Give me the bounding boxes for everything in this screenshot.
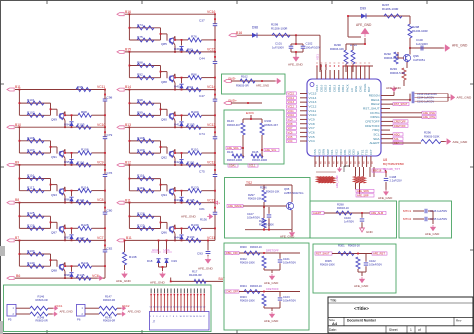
svg-text:VC4: VC4 <box>309 139 315 143</box>
svg-text:D41: D41 <box>174 122 180 126</box>
svg-text:RST_SHUT: RST_SHUT <box>394 102 408 106</box>
svg-text:AFE_GND: AFE_GND <box>264 281 279 285</box>
svg-text:2: 2 <box>153 316 154 318</box>
svg-text:R116: R116 <box>27 174 35 178</box>
svg-text:of: of <box>418 328 421 332</box>
svg-text:AFE_GND: AFE_GND <box>356 23 372 27</box>
svg-text:AFE_ALM: AFE_ALM <box>371 211 383 215</box>
svg-text:B7: B7 <box>15 236 19 240</box>
svg-text:VC13: VC13 <box>288 100 295 104</box>
svg-text:C82: C82 <box>107 246 113 250</box>
svg-text:R88: R88 <box>137 61 143 65</box>
svg-text:B14: B14 <box>125 85 131 89</box>
svg-text:AFE_GND: AFE_GND <box>453 140 469 144</box>
svg-text:AFE_GND: AFE_GND <box>116 279 132 283</box>
svg-text:VC13: VC13 <box>207 123 216 127</box>
svg-text:R1206-100R: R1206-100R <box>271 27 287 31</box>
svg-text:R0603-0R: R0603-0R <box>36 298 48 302</box>
svg-text:R0603-4K7: R0603-4K7 <box>227 123 241 127</box>
svg-text:VC14: VC14 <box>288 96 295 100</box>
svg-text:SCL: SCL <box>394 137 400 141</box>
svg-text:B8: B8 <box>15 198 19 202</box>
svg-text:R76: R76 <box>191 35 197 39</box>
svg-text:R0603-510K: R0603-510K <box>424 134 440 138</box>
svg-text:AFE_GND: AFE_GND <box>150 281 166 285</box>
svg-text:VC9: VC9 <box>97 161 104 165</box>
svg-text:R303: R303 <box>240 295 247 299</box>
svg-text:R109: R109 <box>137 148 145 152</box>
svg-text:R108: R108 <box>137 136 145 140</box>
svg-text:R0603-0R: R0603-0R <box>103 298 115 302</box>
svg-text:MTC2: MTC2 <box>403 217 412 221</box>
svg-text:B15: B15 <box>125 48 131 52</box>
svg-text:R0603-0R: R0603-0R <box>103 319 115 323</box>
svg-text:D95: D95 <box>64 160 70 164</box>
svg-text:100nF/50V: 100nF/50V <box>283 261 296 265</box>
svg-text:R162: R162 <box>241 75 248 79</box>
svg-text:SCL1: SCL1 <box>249 164 256 168</box>
svg-text:B9: B9 <box>15 161 19 165</box>
svg-text:AFE_GND: AFE_GND <box>378 196 393 200</box>
svg-text:R130: R130 <box>265 119 272 123</box>
svg-text:VC10: VC10 <box>288 113 295 117</box>
svg-text:E3V3: E3V3 <box>246 111 254 115</box>
svg-text:Sheet: Sheet <box>389 328 398 332</box>
svg-text:R0603-1K: R0603-1K <box>337 206 349 210</box>
svg-text:R0603-100R: R0603-100R <box>252 158 267 162</box>
svg-text:PD: PD <box>333 161 335 164</box>
svg-text:R0603-100K: R0603-100K <box>259 223 274 227</box>
svg-text:VC10: VC10 <box>97 123 106 127</box>
svg-text:R95: R95 <box>77 85 83 89</box>
svg-text:R128: R128 <box>137 211 145 215</box>
svg-text:AFE_CHG: AFE_CHG <box>423 115 435 119</box>
svg-text:1: 1 <box>410 328 412 332</box>
svg-text:DFETOFF: DFETOFF <box>266 249 279 253</box>
svg-text:R118: R118 <box>137 174 145 178</box>
svg-text:R0603-100K: R0603-100K <box>240 299 255 303</box>
svg-text:Q97: Q97 <box>51 231 57 235</box>
svg-text:VCC2: VCC2 <box>122 304 130 308</box>
svg-text:PD: PD <box>368 161 370 164</box>
svg-text:Q85: Q85 <box>161 42 167 46</box>
svg-text:AFE_GND: AFE_GND <box>354 284 369 288</box>
svg-text:R110: R110 <box>191 148 199 152</box>
svg-text:AFE_GND: AFE_GND <box>256 84 269 88</box>
svg-text:VD1: VD1 <box>316 54 320 60</box>
svg-text:R75: R75 <box>137 35 143 39</box>
svg-text:C98: C98 <box>107 96 113 100</box>
svg-text:AFE_GND: AFE_GND <box>386 86 402 90</box>
svg-text:GND: GND <box>366 230 374 234</box>
svg-text:C160: C160 <box>344 216 351 220</box>
svg-text:CFETOFF: CFETOFF <box>266 287 279 291</box>
svg-text:VC8: VC8 <box>288 122 294 126</box>
svg-text:100nF/50V: 100nF/50V <box>283 299 296 303</box>
svg-text:R0603-1K: R0603-1K <box>250 245 262 249</box>
svg-text:R143: R143 <box>227 119 234 123</box>
svg-text:R105: R105 <box>187 123 195 127</box>
svg-text:R145: R145 <box>252 150 259 154</box>
svg-text:R300: R300 <box>240 245 247 249</box>
svg-text:VC7: VC7 <box>97 236 104 240</box>
svg-text:Q93: Q93 <box>51 193 57 197</box>
svg-text:R113: R113 <box>77 160 85 164</box>
svg-text:R305: R305 <box>325 259 332 263</box>
svg-text:MTC1: MTC1 <box>403 209 412 213</box>
svg-text:R0603-10K: R0603-10K <box>248 197 262 201</box>
svg-text:DBG_OFF: DBG_OFF <box>226 251 238 255</box>
svg-text:R127: R127 <box>77 236 85 240</box>
svg-text:100nF/50V: 100nF/50V <box>369 263 382 267</box>
svg-text:BAT: BAT <box>367 86 371 92</box>
svg-text:AFE_GND: AFE_GND <box>457 96 473 100</box>
svg-text:GND+: GND+ <box>228 99 237 103</box>
svg-text:D44: D44 <box>174 236 180 240</box>
svg-text:HDQ: HDQ <box>394 133 400 137</box>
svg-text:CFETOFF: CFETOFF <box>394 120 406 124</box>
svg-text:C37: C37 <box>199 19 205 23</box>
svg-text:ALERT: ALERT <box>369 141 379 145</box>
svg-text:R0603-10K: R0603-10K <box>266 190 280 194</box>
svg-text:VC5: VC5 <box>288 135 294 139</box>
svg-text:UC1: UC1 <box>164 248 171 252</box>
svg-text:VC8: VC8 <box>97 198 104 202</box>
svg-text:RST_SHUT: RST_SHUT <box>316 252 330 256</box>
svg-text:R0603-100K: R0603-100K <box>320 263 335 267</box>
svg-text:R74: R74 <box>137 23 143 27</box>
svg-text:PD: PD <box>355 161 357 164</box>
svg-text:9: 9 <box>176 316 177 318</box>
svg-text:R296: R296 <box>260 186 267 190</box>
svg-text:VC7: VC7 <box>288 126 294 130</box>
svg-text:PD: PD <box>342 161 344 164</box>
svg-text:C81: C81 <box>199 207 205 211</box>
svg-text:VC9: VC9 <box>288 118 294 122</box>
svg-text:D42: D42 <box>174 160 180 164</box>
svg-text:1uF/100V: 1uF/100V <box>272 46 284 50</box>
svg-text:R140: R140 <box>27 261 35 265</box>
svg-text:R98: R98 <box>137 98 143 102</box>
svg-text:CHG_OFF: CHG_OFF <box>226 290 239 294</box>
svg-text:R108: R108 <box>81 148 89 152</box>
svg-text:AFE_GND: AFE_GND <box>452 44 468 48</box>
svg-text:C163: C163 <box>283 295 290 299</box>
svg-text:VC6: VC6 <box>288 130 294 134</box>
svg-text:VCC1: VCC1 <box>55 304 63 308</box>
svg-text:C76: C76 <box>107 171 113 175</box>
svg-text:PD: PD <box>338 161 340 164</box>
svg-text:PD: PD <box>329 161 331 164</box>
svg-text:R0603-4K7: R0603-4K7 <box>265 123 279 127</box>
svg-text:B6: B6 <box>16 274 20 278</box>
svg-text:R125: R125 <box>187 198 195 202</box>
svg-text:VC11: VC11 <box>97 85 105 89</box>
svg-text:Q98: Q98 <box>51 268 57 272</box>
svg-text:C47: C47 <box>199 94 205 98</box>
svg-text:AFE_GND: AFE_GND <box>60 309 73 313</box>
svg-text:D98: D98 <box>252 26 258 30</box>
svg-text:R136: R136 <box>200 218 207 222</box>
svg-text:AFE_GND: AFE_GND <box>280 235 295 239</box>
svg-text:VC6: VC6 <box>92 274 99 278</box>
svg-text:C44: C44 <box>199 56 205 60</box>
svg-text:D96: D96 <box>64 198 70 202</box>
svg-text:AFE_RST: AFE_RST <box>373 252 385 256</box>
svg-text:R105: R105 <box>77 123 85 127</box>
svg-text:R97: R97 <box>187 85 193 89</box>
svg-text:Q91: Q91 <box>51 155 57 159</box>
svg-text:R0603-1K: R0603-1K <box>250 284 262 288</box>
svg-text:R302: R302 <box>240 257 247 261</box>
svg-text:D40: D40 <box>174 85 180 89</box>
svg-text:Document Number: Document Number <box>347 319 377 323</box>
svg-text:UC2: UC2 <box>152 248 159 252</box>
svg-text:R298: R298 <box>259 219 266 223</box>
svg-text:11: 11 <box>183 316 185 318</box>
svg-text:AFE_SDA: AFE_SDA <box>227 146 239 150</box>
svg-text:R1206-100R: R1206-100R <box>382 7 398 11</box>
svg-text:R301: R301 <box>338 244 345 248</box>
svg-text:Q90: Q90 <box>161 118 167 122</box>
svg-text:R100: R100 <box>191 110 199 114</box>
svg-text:C80: C80 <box>107 209 113 213</box>
svg-text:R120: R120 <box>191 185 199 189</box>
svg-text:LMBT3904LT1G: LMBT3904LT1G <box>284 191 303 195</box>
svg-text:C79: C79 <box>107 133 113 137</box>
svg-text:D99: D99 <box>360 7 366 11</box>
svg-text:<Title>: <Title> <box>354 306 369 311</box>
svg-text:P6: P6 <box>77 318 81 322</box>
svg-text:1nF/50V: 1nF/50V <box>344 220 354 224</box>
svg-text:R106: R106 <box>27 136 35 140</box>
svg-text:C75: C75 <box>199 170 205 174</box>
svg-text:B16: B16 <box>236 31 242 35</box>
svg-text:AFE_DSG: AFE_DSG <box>423 111 435 115</box>
svg-text:R121: R121 <box>77 198 85 202</box>
svg-text:VC11: VC11 <box>207 198 215 202</box>
svg-text:PD: PD <box>372 161 374 164</box>
svg-text:CAT0051: CAT0051 <box>413 58 425 62</box>
svg-text:VC16: VC16 <box>207 10 216 14</box>
svg-text:7: 7 <box>170 316 171 318</box>
svg-text:B11: B11 <box>126 236 132 240</box>
svg-text:17: 17 <box>203 316 205 318</box>
svg-text:Title: Title <box>330 299 336 303</box>
svg-text:R115: R115 <box>187 160 195 164</box>
svg-text:PD: PD <box>364 161 366 164</box>
svg-text:D94: D94 <box>64 122 70 126</box>
svg-text:VC14: VC14 <box>207 85 216 89</box>
svg-text:Q94: Q94 <box>161 193 167 197</box>
svg-text:Q88: Q88 <box>161 80 167 84</box>
svg-text:R298: R298 <box>337 203 344 207</box>
svg-text:P5: P5 <box>8 318 12 322</box>
svg-text:VC4: VC4 <box>288 139 294 143</box>
svg-text:R107: R107 <box>27 148 35 152</box>
svg-text:D19: D19 <box>172 259 178 263</box>
svg-text:R0603-10K: R0603-10K <box>384 56 398 60</box>
svg-text:R0603-5.1M: R0603-5.1M <box>390 71 406 75</box>
svg-text:DFETOFF: DFETOFF <box>394 124 406 128</box>
svg-text:R134: R134 <box>187 235 195 239</box>
svg-text:C107: C107 <box>247 212 254 216</box>
svg-text:R130: R130 <box>191 223 199 227</box>
svg-text:REG18: REG18 <box>373 169 382 173</box>
svg-text:R128: R128 <box>81 223 89 227</box>
svg-text:R0603-0R: R0603-0R <box>36 319 48 323</box>
svg-text:PD: PD <box>316 161 318 164</box>
svg-text:VC11: VC11 <box>288 109 295 113</box>
svg-text:AFE_SRP: AFE_SRP <box>357 194 369 198</box>
svg-text:Date:: Date: <box>329 328 337 332</box>
svg-text:R141: R141 <box>81 261 89 265</box>
svg-text:Q99: Q99 <box>51 118 57 122</box>
svg-text:R138: R138 <box>129 255 137 259</box>
svg-text:AFE_SRN: AFE_SRN <box>357 189 369 193</box>
svg-text:R0603-10K: R0603-10K <box>330 47 344 51</box>
svg-text:PD: PD <box>351 161 353 164</box>
svg-text:R297: R297 <box>248 193 255 197</box>
svg-text:PD: PD <box>346 161 348 164</box>
svg-text:Q95: Q95 <box>284 187 290 191</box>
svg-text:AFE_GND: AFE_GND <box>181 215 197 219</box>
svg-text:B11: B11 <box>15 85 21 89</box>
svg-text:R99: R99 <box>137 110 143 114</box>
svg-text:PD: PD <box>359 161 361 164</box>
svg-text:B12: B12 <box>125 161 131 165</box>
svg-text:R137: R137 <box>27 249 35 253</box>
svg-text:AFE_GND: AFE_GND <box>128 309 141 313</box>
svg-text:R144: R144 <box>227 150 234 154</box>
svg-text:Q92: Q92 <box>161 155 167 159</box>
svg-text:R117: R117 <box>27 186 35 190</box>
svg-text:VC12: VC12 <box>288 105 295 109</box>
svg-text:PD: PD <box>325 161 327 164</box>
svg-text:R126: R126 <box>27 223 35 227</box>
svg-text:D39: D39 <box>174 47 180 51</box>
svg-text:R145: R145 <box>77 273 85 277</box>
svg-text:C162: C162 <box>369 259 376 263</box>
svg-text:R0603-1K: R0603-1K <box>348 244 360 248</box>
svg-text:R1206-0R: R1206-0R <box>189 273 202 277</box>
svg-text:R0603-0R: R0603-0R <box>236 84 249 88</box>
svg-text:R129: R129 <box>137 224 145 228</box>
svg-text:1uF/100V: 1uF/100V <box>416 42 428 46</box>
svg-text:GND-: GND- <box>228 77 236 81</box>
svg-text:R1206-100R: R1206-100R <box>412 29 428 33</box>
svg-text:R102: R102 <box>27 110 35 114</box>
svg-text:B16: B16 <box>125 10 131 14</box>
svg-text:ALERT: ALERT <box>313 211 322 215</box>
svg-text:AFE_WAKE: AFE_WAKE <box>228 204 242 208</box>
svg-text:VC12: VC12 <box>207 161 216 165</box>
svg-text:1: 1 <box>150 316 151 318</box>
svg-text:R119: R119 <box>137 186 145 190</box>
svg-text:C161: C161 <box>283 257 290 261</box>
svg-text:D97: D97 <box>64 235 70 239</box>
svg-text:AFE_GND: AFE_GND <box>335 175 339 188</box>
svg-text:SDA1: SDA1 <box>229 164 236 168</box>
svg-text:A4: A4 <box>332 321 338 326</box>
svg-text:C93: C93 <box>197 252 203 256</box>
svg-text:2.2uF/25V: 2.2uF/25V <box>390 179 402 183</box>
svg-text:12: 12 <box>186 316 188 318</box>
svg-text:D98: D98 <box>64 273 70 277</box>
svg-text:C74: C74 <box>199 132 205 136</box>
svg-text:AFE_GND: AFE_GND <box>288 62 304 66</box>
svg-text:VC15: VC15 <box>207 48 216 52</box>
svg-text:D43: D43 <box>174 198 180 202</box>
svg-text:AFE_GND: AFE_GND <box>425 232 440 236</box>
svg-text:TS2: TS2 <box>246 181 252 185</box>
svg-text:R96: R96 <box>191 72 197 76</box>
svg-text:C198: C198 <box>390 175 397 179</box>
svg-text:R92: R92 <box>137 73 143 77</box>
svg-text:Q96: Q96 <box>161 231 167 235</box>
svg-text:AFE_SCL: AFE_SCL <box>265 148 277 152</box>
svg-text:100uF/100V: 100uF/100V <box>306 46 321 50</box>
svg-text:R125: R125 <box>27 211 35 215</box>
svg-text:R98: R98 <box>81 110 87 114</box>
svg-text:R304: R304 <box>240 284 247 288</box>
svg-text:AFE_GND: AFE_GND <box>264 319 279 323</box>
svg-text:R82: R82 <box>187 47 193 51</box>
svg-text:BQ76952PFBR: BQ76952PFBR <box>383 162 405 166</box>
svg-text:AFE_GND: AFE_GND <box>198 267 214 271</box>
svg-text:CFT: CFT <box>369 149 373 155</box>
svg-text:R0603-100K: R0603-100K <box>240 261 255 265</box>
svg-text:R101: R101 <box>27 98 35 102</box>
svg-text:B13: B13 <box>125 123 131 127</box>
svg-text:B10: B10 <box>15 123 21 127</box>
svg-text:B11: B11 <box>125 198 131 202</box>
svg-text:Rev: Rev <box>456 319 462 323</box>
svg-text:R114: R114 <box>81 185 89 189</box>
svg-text:D18: D18 <box>147 259 153 263</box>
svg-text:VC15: VC15 <box>288 92 295 96</box>
svg-text:R0603-100R: R0603-100R <box>227 158 242 162</box>
svg-text:PD: PD <box>321 161 323 164</box>
